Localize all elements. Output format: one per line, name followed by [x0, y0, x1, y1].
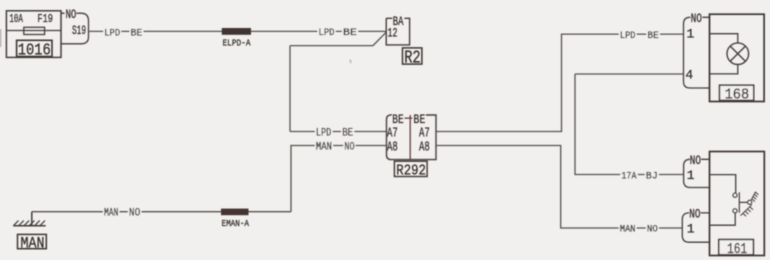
svg-text:MAN: MAN — [21, 235, 45, 253]
svg-text:A8: A8 — [419, 139, 430, 155]
svg-text:MAN: MAN — [316, 141, 332, 153]
svg-text:1: 1 — [687, 222, 695, 237]
svg-text:NO: NO — [689, 208, 700, 222]
wire label MAN-NO (to 161) — [619, 223, 637, 233]
switch contact top — [733, 193, 737, 197]
wire MAN-NO into R292 A8 — [291, 146, 387, 212]
wire label 17A-BJ — [620, 170, 637, 180]
switch actuator roller — [748, 200, 752, 204]
svg-text:LPD: LPD — [104, 29, 120, 40]
ground label box MAN — [18, 234, 47, 248]
svg-text:A8: A8 — [387, 139, 398, 155]
fuse symbol F19 — [24, 27, 45, 34]
connector bracket bottom at 161 — [682, 213, 709, 242]
lamp symbol — [727, 43, 749, 65]
svg-text:NO: NO — [690, 154, 701, 168]
R292 middle divider — [404, 115, 412, 160]
wire A7 right to lamp feed — [436, 34, 684, 131]
svg-text:S19: S19 — [72, 23, 86, 38]
connector R292 — [387, 115, 437, 160]
svg-text:17A: 17A — [621, 170, 637, 182]
switch blade — [739, 192, 747, 213]
wire label LPD-BE (first) — [103, 28, 121, 37]
svg-text:NO: NO — [66, 8, 77, 22]
splice ELPD-A — [222, 28, 251, 35]
svg-text:4: 4 — [685, 68, 693, 83]
svg-text:MAN: MAN — [620, 224, 636, 236]
ground wire MAN-NO from ground to EMAN-A — [32, 211, 291, 213]
wire branch to R292 A7 (vertical at x=290) — [289, 46, 291, 132]
svg-text:R292: R292 — [396, 162, 426, 179]
wire label LPD-BE (to 168 pin 1) — [619, 30, 637, 40]
component 161 box — [710, 152, 765, 256]
ground hatching — [14, 221, 46, 226]
svg-text:BE: BE — [342, 127, 353, 139]
svg-text:BE: BE — [343, 27, 357, 39]
label box 168 — [720, 85, 754, 100]
svg-text:12: 12 — [388, 25, 398, 40]
svg-text:BJ: BJ — [646, 170, 658, 182]
svg-text:EMAN-A: EMAN-A — [222, 218, 250, 229]
connector S19 bracket — [61, 13, 89, 44]
component 168 box — [710, 14, 765, 101]
splice EMAN-A — [221, 209, 249, 216]
svg-text:LPD: LPD — [319, 27, 335, 39]
switch contact bottom — [733, 209, 737, 213]
svg-text:LPD: LPD — [620, 30, 636, 42]
wire 17A-BJ from 168 pin 4 to 161 pin 1 — [575, 74, 684, 175]
actuator upper hatch — [751, 192, 758, 202]
scan speck — [350, 60, 351, 64]
component label box 1016 — [17, 40, 52, 56]
svg-text:ELPD-A: ELPD-A — [223, 37, 251, 48]
connector R2 — [386, 18, 409, 45]
svg-text:NO: NO — [344, 141, 354, 153]
svg-text:LPD: LPD — [316, 127, 331, 139]
svg-text:BE: BE — [131, 29, 143, 40]
svg-text:NO: NO — [129, 207, 140, 219]
wire LPD-BE into R292 A7 — [290, 131, 387, 133]
svg-text:10A: 10A — [9, 12, 23, 26]
label box R292 — [394, 161, 427, 176]
wire from branch to R2 pin 12 — [290, 32, 386, 45]
svg-text:1016: 1016 — [18, 42, 51, 61]
switch wiring inside 161 — [710, 175, 736, 226]
ground symbol MAN — [13, 212, 46, 226]
svg-text:161: 161 — [727, 242, 747, 258]
lamp wiring inside 168 — [710, 34, 738, 74]
connector bracket at 168 — [684, 17, 710, 88]
svg-text:MAN: MAN — [104, 207, 118, 219]
svg-text:1: 1 — [687, 27, 695, 42]
svg-text:1: 1 — [687, 168, 695, 183]
fuse element wire — [6, 30, 61, 32]
svg-text:F19: F19 — [37, 12, 53, 26]
label box R2 — [403, 48, 422, 64]
svg-text:NO: NO — [691, 12, 702, 26]
scan artifact left edge — [0, 29, 1, 47]
svg-text:NO: NO — [647, 224, 658, 236]
label box 161 — [719, 240, 754, 255]
fuse box 1016 outline — [6, 11, 61, 58]
actuator lower hatch — [741, 205, 754, 217]
svg-text:168: 168 — [725, 86, 750, 103]
wire LPD-BE from S19 to R2 pin 12 — [89, 30, 387, 32]
connector bracket top at 161 — [684, 159, 710, 187]
wire label LPD-BE (second, before R2) — [318, 27, 336, 37]
wire A8 right MAN-NO to 161 — [436, 146, 682, 229]
svg-text:BE: BE — [647, 30, 658, 42]
svg-text:R2: R2 — [404, 48, 421, 69]
